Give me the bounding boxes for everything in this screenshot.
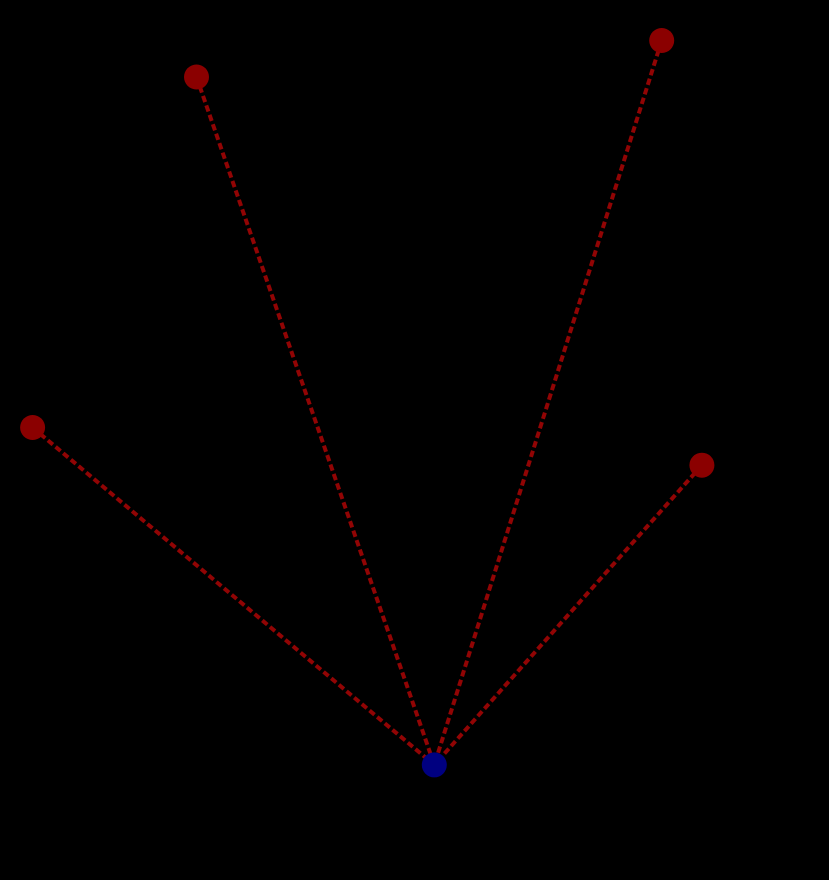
wire node3-to-hub (dashed edge from left node)	[33, 428, 435, 765]
wire node1-to-hub (dashed edge from top-left node)	[197, 77, 435, 765]
wire node4-to-hub (dashed edge from right node)	[434, 465, 702, 765]
node 4 (right red node)	[689, 453, 714, 478]
node 1 (top-left red node)	[184, 65, 209, 90]
wire node2-to-hub (dashed edge from top-right node)	[434, 41, 661, 765]
node 3 (left red node)	[20, 415, 45, 440]
node hub (central blue node)	[422, 752, 447, 777]
node 2 (top-right red node)	[649, 28, 674, 53]
